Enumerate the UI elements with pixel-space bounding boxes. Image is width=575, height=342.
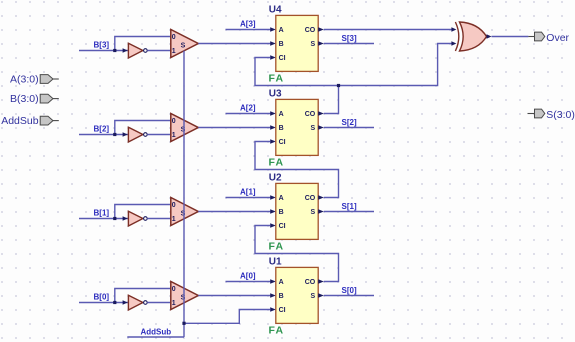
svg-text:S: S bbox=[311, 209, 316, 216]
svg-text:S[1]: S[1] bbox=[342, 202, 357, 211]
svg-text:B: B bbox=[279, 293, 284, 300]
arrowhead U4 pin S output bbox=[318, 41, 324, 45]
arrowhead U4 pin B bbox=[270, 41, 276, 45]
arrowhead U3 pin CI bbox=[270, 139, 276, 143]
wire B[2] branch to mux I0 bbox=[115, 121, 171, 135]
arrowhead XOR input top bbox=[451, 27, 456, 31]
arrowhead U1 pin CI bbox=[270, 307, 276, 311]
wire mux output to U3 pin B bbox=[198, 127, 270, 129]
wire S[2] stub bbox=[324, 127, 374, 129]
arrowhead inverter input bit 3 bbox=[123, 48, 128, 52]
svg-text:A[3]: A[3] bbox=[240, 19, 256, 28]
arrowhead U3 pin CO output bbox=[318, 111, 324, 115]
svg-text:U2: U2 bbox=[269, 173, 282, 184]
svg-text:U3: U3 bbox=[269, 89, 282, 100]
inverter (NOT gate) bit 3 bbox=[128, 43, 143, 58]
svg-text:S: S bbox=[181, 211, 186, 218]
junction B[1] branch bbox=[113, 217, 116, 220]
wire AddSub select vertical bbox=[183, 51, 185, 337]
svg-text:0: 0 bbox=[172, 118, 176, 125]
wire carry CO U1 -> CI U2 bbox=[255, 226, 339, 282]
svg-text:S[2]: S[2] bbox=[342, 118, 357, 127]
inverter (NOT gate) bit 0 bbox=[128, 295, 143, 310]
svg-text:S: S bbox=[311, 293, 316, 300]
svg-text:U1: U1 bbox=[269, 257, 282, 268]
junction B[0] branch bbox=[113, 301, 116, 304]
svg-text:CO: CO bbox=[305, 27, 316, 34]
wire B[3] branch to mux I0 bbox=[115, 37, 171, 51]
svg-text:A[2]: A[2] bbox=[240, 103, 256, 112]
arrowhead XOR input bottom bbox=[451, 41, 456, 45]
output port Over bbox=[528, 36, 534, 38]
svg-text:A[1]: A[1] bbox=[240, 187, 256, 196]
wire B[0] branch to mux I0 bbox=[115, 289, 171, 303]
wire inverter output to mux I1 bit 1 bbox=[147, 218, 171, 220]
svg-text:U4: U4 bbox=[269, 5, 282, 16]
full adder U4 body bbox=[276, 15, 318, 71]
svg-text:S(3:0): S(3:0) bbox=[546, 109, 575, 121]
wire S[0] stub bbox=[324, 295, 374, 297]
svg-text:B: B bbox=[279, 209, 284, 216]
arrowhead U2 pin B bbox=[270, 209, 276, 213]
arrowhead U2 pin CI bbox=[270, 223, 276, 227]
output port S(3:0) bbox=[528, 113, 535, 115]
svg-text:FA: FA bbox=[269, 240, 285, 252]
wire B[1] branch to mux I0 bbox=[115, 205, 171, 219]
arrowhead inverter input bit 2 bbox=[123, 132, 128, 136]
junction B[2] branch bbox=[113, 133, 116, 136]
arrowhead U3 pin B bbox=[270, 125, 276, 129]
inverter (NOT gate) bit 1 bbox=[128, 211, 143, 226]
inverter output bubble bit 3 bbox=[144, 49, 148, 53]
svg-text:S: S bbox=[311, 41, 316, 48]
wire inverter output to mux I1 bit 3 bbox=[147, 50, 171, 52]
svg-text:CO: CO bbox=[305, 111, 316, 118]
svg-text:A: A bbox=[279, 111, 284, 118]
svg-text:A: A bbox=[279, 279, 284, 286]
svg-text:FA: FA bbox=[269, 72, 285, 84]
svg-text:CI: CI bbox=[279, 223, 286, 230]
wire carry tap to XOR bottom input bbox=[339, 44, 452, 86]
wire mux output to U4 pin B bbox=[198, 43, 270, 45]
wire S[1] stub bbox=[324, 211, 374, 213]
wire B[0] horizontal bbox=[79, 302, 128, 304]
full adder U2 body bbox=[276, 183, 318, 239]
svg-text:CI: CI bbox=[279, 139, 286, 146]
inverter (NOT gate) bit 2 bbox=[128, 127, 143, 142]
arrowhead U2 pin CO output bbox=[318, 195, 324, 199]
wire XOR output to Over port bbox=[492, 36, 529, 38]
arrowhead U2 pin S output bbox=[318, 209, 324, 213]
svg-text:A: A bbox=[279, 27, 284, 34]
wire AddSub branch to CI U1 bbox=[184, 310, 270, 324]
arrowhead U3 pin S output bbox=[318, 125, 324, 129]
junction B[3] branch bbox=[113, 49, 116, 52]
wire mux output to U2 pin B bbox=[198, 211, 270, 213]
arrowhead U1 pin A bbox=[270, 279, 276, 283]
svg-text:B(3:0): B(3:0) bbox=[10, 93, 39, 105]
mux M2_1 bit 0 bbox=[171, 282, 199, 310]
svg-text:A: A bbox=[279, 195, 284, 202]
mux M2_1 bit 3 bbox=[171, 30, 199, 58]
wire B[2] horizontal bbox=[79, 134, 128, 136]
svg-text:FA: FA bbox=[269, 156, 285, 168]
arrowhead U1 pin S output bbox=[318, 293, 324, 297]
wire S[3] stub bbox=[324, 43, 374, 45]
svg-text:S[3]: S[3] bbox=[342, 34, 357, 43]
mux M2_1 bit 1 bbox=[171, 198, 199, 226]
full adder U1 body bbox=[276, 267, 318, 323]
wire B[3] horizontal bbox=[79, 50, 128, 52]
wire A[0] to U1 pin A bbox=[226, 281, 271, 283]
arrowhead U1 pin CO output bbox=[318, 279, 324, 283]
arrowhead U3 pin A bbox=[270, 111, 276, 115]
svg-text:CI: CI bbox=[279, 307, 286, 314]
svg-text:S: S bbox=[311, 125, 316, 132]
wire A[3] to U4 pin A bbox=[226, 29, 271, 31]
wire AddSub bottom stub bbox=[127, 336, 184, 338]
arrowhead U4 pin A bbox=[270, 27, 276, 31]
svg-text:A(3:0): A(3:0) bbox=[10, 74, 39, 86]
svg-text:CI: CI bbox=[279, 55, 286, 62]
svg-text:CO: CO bbox=[305, 279, 316, 286]
wire inverter output to mux I1 bit 2 bbox=[147, 134, 171, 136]
svg-text:B: B bbox=[279, 125, 284, 132]
svg-text:1: 1 bbox=[172, 48, 176, 55]
junction AddSub branch bbox=[182, 322, 185, 325]
wire carry CO U2 -> CI U3 bbox=[255, 142, 339, 198]
svg-text:B[1]: B[1] bbox=[94, 208, 110, 217]
inverter output bubble bit 0 bbox=[144, 301, 148, 305]
svg-text:0: 0 bbox=[172, 202, 176, 209]
svg-text:1: 1 bbox=[172, 132, 176, 139]
svg-text:B[0]: B[0] bbox=[94, 292, 110, 301]
arrowhead U2 pin A bbox=[270, 195, 276, 199]
arrowhead U4 pin CO output bbox=[318, 27, 324, 31]
wire mux output to U1 pin B bbox=[198, 295, 270, 297]
arrowhead U4 pin CI bbox=[270, 55, 276, 59]
arrowhead inverter input bit 1 bbox=[123, 216, 128, 220]
inverter output bubble bit 2 bbox=[144, 133, 148, 137]
svg-text:S: S bbox=[181, 43, 186, 50]
svg-text:Over: Over bbox=[546, 32, 569, 44]
inverter output bubble bit 1 bbox=[144, 217, 148, 221]
svg-text:B[2]: B[2] bbox=[94, 124, 110, 133]
wire B[1] horizontal bbox=[79, 218, 128, 220]
junction carry tap bbox=[337, 84, 340, 87]
XOR gate (overflow) bbox=[460, 22, 487, 51]
svg-text:1: 1 bbox=[172, 216, 176, 223]
arrowhead U1 pin B bbox=[270, 293, 276, 297]
wire CO U4 to XOR top input bbox=[324, 29, 452, 31]
svg-text:S[0]: S[0] bbox=[342, 286, 357, 295]
arrowhead XOR output bbox=[487, 34, 492, 38]
svg-text:0: 0 bbox=[172, 34, 176, 41]
svg-text:AddSub: AddSub bbox=[1, 115, 39, 127]
svg-text:CO: CO bbox=[305, 195, 316, 202]
arrowhead inverter input bit 0 bbox=[123, 300, 128, 304]
XOR input arc bbox=[455, 22, 458, 51]
svg-text:S: S bbox=[181, 295, 186, 302]
svg-text:AddSub: AddSub bbox=[141, 327, 172, 336]
wire A[2] to U3 pin A bbox=[226, 113, 271, 115]
wire carry CO U3 -> CI U4 bbox=[255, 58, 339, 114]
wire A[1] to U2 pin A bbox=[226, 197, 271, 199]
svg-text:B[3]: B[3] bbox=[94, 40, 110, 49]
svg-text:S: S bbox=[181, 127, 186, 134]
svg-text:1: 1 bbox=[172, 300, 176, 307]
svg-text:FA: FA bbox=[269, 324, 285, 336]
svg-text:A[0]: A[0] bbox=[240, 271, 256, 280]
svg-text:B: B bbox=[279, 41, 284, 48]
svg-text:0: 0 bbox=[172, 286, 176, 293]
mux M2_1 bit 2 bbox=[171, 114, 199, 142]
full adder U3 body bbox=[276, 99, 318, 155]
wire inverter output to mux I1 bit 0 bbox=[147, 302, 171, 304]
